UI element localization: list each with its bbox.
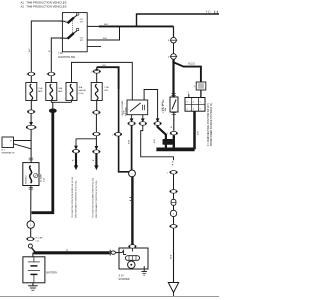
svg-text:GAUGE: GAUGE xyxy=(79,89,87,92)
svg-text:B-R: B-R xyxy=(154,139,156,143)
svg-text:N 1: N 1 xyxy=(2,150,6,152)
battery box xyxy=(23,257,58,283)
alternator (generator) box xyxy=(2,137,15,154)
ground chain below jog wire xyxy=(172,161,173,163)
ignition switch mechanical link (dashed) xyxy=(72,21,74,35)
svg-text:1: 1 xyxy=(167,133,168,135)
svg-text:4: 4 xyxy=(168,57,170,59)
fuse F1 AM1 xyxy=(26,83,44,101)
thick AM2 wire to bus xyxy=(173,135,175,148)
battery lead connector oval xyxy=(26,237,34,241)
splice circle S1 xyxy=(27,221,34,228)
svg-text:FL 0.8B: FL 0.8B xyxy=(35,237,43,239)
tee wire to left branch xyxy=(76,138,96,140)
svg-text:10A: 10A xyxy=(79,86,83,89)
fuse F4 IGN xyxy=(91,83,109,101)
svg-text:2: 2 xyxy=(188,92,190,94)
svg-text:FROM POWER SOURCE SYSTEM (2.0L: FROM POWER SOURCE SYSTEM (2.0L) xyxy=(211,103,213,146)
svg-text:CLUTCH START: CLUTCH START xyxy=(121,100,124,116)
svg-text:S 14: S 14 xyxy=(119,274,125,277)
fuse F3 GAUGE xyxy=(66,83,87,101)
connector oval5 xyxy=(169,190,177,194)
svg-text:3: 3 xyxy=(194,86,196,88)
park/neutral position switch box xyxy=(127,100,148,115)
note text A1/A2 production vehicles xyxy=(21,0,67,8)
black junction label box 1A77 xyxy=(163,139,173,145)
thick B-R feed wire to splice xyxy=(97,67,119,89)
svg-text:BATTERY: BATTERY xyxy=(46,272,57,275)
ignition switch I10 box xyxy=(62,13,87,52)
thick wire relay block bottom to bus xyxy=(193,111,196,149)
connector oval below F1 xyxy=(27,110,35,114)
FL MAIN top pin connector xyxy=(29,158,33,160)
connector oval4 xyxy=(169,171,177,175)
AM2 box left vertical labels xyxy=(161,101,167,112)
connector arrow right branch xyxy=(95,146,99,150)
filled connector oval below F2 xyxy=(49,109,57,114)
svg-text:B-R: B-R xyxy=(103,38,107,40)
connector oval3 xyxy=(154,122,162,126)
wire ACC stub xyxy=(87,46,101,48)
svg-text:SW (M/T): SW (M/T) xyxy=(125,107,127,116)
battery positive terminal xyxy=(28,244,32,248)
starter top pin connector oval xyxy=(128,245,136,249)
wire S1 down to battery connector xyxy=(30,228,32,237)
starter internal ground xyxy=(141,266,147,275)
wire AM2 box to oval xyxy=(172,113,176,115)
wire AM2 feed: switch pin to fuse F2 xyxy=(51,38,62,83)
wire IG2 output (thick) from switch right pin xyxy=(87,25,99,27)
svg-text:IGNITION SW: IGNITION SW xyxy=(58,55,75,59)
svg-text:(2.0L): (2.0L) xyxy=(79,93,85,95)
second connector oval below F4 xyxy=(92,132,100,136)
wire below F1 with connectors xyxy=(30,101,32,110)
wire below F4 with connectors xyxy=(96,101,98,111)
wire ST step: lower right pin up to IG2 wire xyxy=(87,26,119,40)
connector oval below F4 xyxy=(92,111,100,115)
wire down to connector circles xyxy=(173,26,175,37)
wire CB1 to relay block xyxy=(200,90,202,98)
thick wire S2 to starter xyxy=(131,177,133,245)
svg-text:FL MAIN: FL MAIN xyxy=(39,173,42,182)
starter label xyxy=(119,274,130,281)
arrow terminal left branch xyxy=(74,165,78,170)
svg-text:AM2: AM2 xyxy=(58,90,63,93)
connector oval above F1 xyxy=(27,72,35,76)
connector arrow below F1 xyxy=(29,122,33,126)
svg-text:B: B xyxy=(93,159,95,161)
AM2 fusible link box xyxy=(170,97,178,112)
svg-text:B: B xyxy=(49,50,51,52)
vertical labels under arrows xyxy=(72,177,98,218)
svg-text:IGNITION AND CONTROL SYS (2.0L: IGNITION AND CONTROL SYS (2.0L) xyxy=(75,180,78,218)
svg-text:B: B xyxy=(72,159,74,161)
connector oval above F4 xyxy=(93,70,101,74)
connector oval6 xyxy=(169,225,177,229)
svg-text:B-W: B-W xyxy=(128,139,130,144)
starter relay junction block (2x3 grid) xyxy=(185,98,205,112)
connector oval right branch xyxy=(92,150,100,154)
svg-text:IGNITION AND CONTROL SYS (2.0L: IGNITION AND CONTROL SYS (2.0L) xyxy=(95,180,98,218)
svg-text:STARTER: STARTER xyxy=(119,278,130,281)
ignition switch label I 10 IGNITION SW xyxy=(58,51,75,59)
svg-text:30A: 30A xyxy=(58,87,62,90)
small connector capsule xyxy=(171,199,176,205)
splice circle S2 xyxy=(129,170,136,177)
svg-text:100A ALT: 100A ALT xyxy=(25,175,28,185)
wire F4 top to thick B-R feed xyxy=(96,73,98,82)
svg-text:15A: 15A xyxy=(38,87,42,90)
alternator output wires xyxy=(14,140,32,142)
wire F3 top to park/neutral switch xyxy=(72,62,133,100)
ground triangle xyxy=(168,283,178,293)
wire to right edge (top) with end label 1J xyxy=(137,14,220,26)
connector oval pair below F1 xyxy=(26,125,36,129)
battery ground symbol xyxy=(28,283,37,290)
connector circle C3 xyxy=(170,210,176,216)
svg-text:7.5A: 7.5A xyxy=(104,86,109,89)
wire PN switch bottom-left pin to splice S2 xyxy=(131,115,133,119)
wire PN switch right top pin to oval3 xyxy=(144,90,158,119)
wire C2 to relay connector 2J xyxy=(174,59,201,82)
svg-text:2.0L: 2.0L xyxy=(44,177,46,182)
ignition switch blade contact 2 xyxy=(68,28,79,38)
svg-text:IGN: IGN xyxy=(104,90,108,92)
svg-text:1: 1 xyxy=(25,74,26,76)
svg-text:1: 1 xyxy=(167,172,168,174)
svg-text:1: 1 xyxy=(91,71,92,73)
svg-text:W-B: W-B xyxy=(170,254,172,259)
svg-text:B: B xyxy=(171,126,173,128)
svg-text:AM2: AM2 xyxy=(63,37,67,40)
wire FL MAIN bottom to splice S1 xyxy=(30,186,32,221)
svg-text:GENERATOR: GENERATOR xyxy=(2,151,15,154)
park/neutral switch left vertical label xyxy=(121,100,127,116)
ignition switch blade contact 1 xyxy=(68,13,79,23)
connector circle C2 xyxy=(171,54,177,60)
svg-text:B (2J): B (2J) xyxy=(189,64,195,66)
svg-text:2.0L : AM2: 2.0L : AM2 xyxy=(161,101,164,112)
svg-text:4 1J: 4 1J xyxy=(206,12,210,14)
svg-text:AM1: AM1 xyxy=(63,20,67,23)
svg-text:B-R: B-R xyxy=(104,24,108,26)
fusible link FL MAIN box xyxy=(23,163,46,186)
relay block right vertical note text xyxy=(207,103,213,146)
svg-text:I 10: I 10 xyxy=(58,51,63,55)
fuse F2 AM2 xyxy=(46,83,64,101)
relay block top-left stub xyxy=(188,94,190,98)
thick battery feed wire from F2 down to splice corner xyxy=(32,113,53,213)
ignition switch pin stubs and labels xyxy=(60,19,83,42)
starter battery cable connector xyxy=(109,250,111,256)
thick battery cable to starter xyxy=(34,251,110,254)
svg-text:P 1 PARK/NEUTRAL POSITION SW (: P 1 PARK/NEUTRAL POSITION SW (A/T) xyxy=(207,103,210,146)
connector oval above F2 xyxy=(47,72,55,76)
svg-text:30A: 30A xyxy=(164,107,167,111)
wire F2/F3 bottom bus xyxy=(50,101,52,103)
wire AM1 feed: switch pin to fuse F1 xyxy=(31,21,62,83)
svg-text:ST1: ST1 xyxy=(80,40,83,42)
connector arrow above oval3 xyxy=(156,118,160,122)
svg-text:TO IGNITION CONTROL MODULE (2.: TO IGNITION CONTROL MODULE (2.0L) xyxy=(72,177,74,218)
bottom page rule xyxy=(0,296,219,298)
svg-text:1: 1 xyxy=(45,74,46,76)
svg-text:1 2L: 1 2L xyxy=(35,240,40,242)
thick starter bus xyxy=(156,147,194,151)
AM2 fusible link wire from C2 xyxy=(172,59,174,97)
svg-text:ST2: ST2 xyxy=(80,21,83,23)
svg-text:B-Y: B-Y xyxy=(29,48,31,52)
wire PN switch bottom-right pin to ground chain xyxy=(142,115,144,119)
starter motor box xyxy=(119,248,148,269)
connector oval on B-R feed xyxy=(114,133,122,137)
FL MAIN bottom pin connector xyxy=(29,187,33,189)
connector arrow left branch xyxy=(74,146,78,150)
connector block CB1 xyxy=(194,82,206,90)
wire between connector circles xyxy=(173,43,175,54)
svg-text:4: 4 xyxy=(168,40,170,42)
svg-text:(: ( xyxy=(112,134,113,136)
connector oval on AM2 wire xyxy=(170,131,178,135)
thick wire oval3 diagonal down to starter bus xyxy=(158,125,166,148)
svg-text:AM1: AM1 xyxy=(38,90,43,93)
svg-text:A2 : THM PRODUCTION VEHICLES: A2 : THM PRODUCTION VEHICLES xyxy=(21,5,67,9)
svg-text:TO IGNITION COIL AND IGNITER (: TO IGNITION COIL AND IGNITER (2.0L) xyxy=(92,178,95,218)
svg-text:B-R: B-R xyxy=(197,131,199,135)
arrow terminal right branch xyxy=(94,165,98,170)
connector circle C1 xyxy=(171,37,177,43)
svg-text:1A77: 1A77 xyxy=(164,141,171,145)
connector oval left branch xyxy=(72,150,80,154)
